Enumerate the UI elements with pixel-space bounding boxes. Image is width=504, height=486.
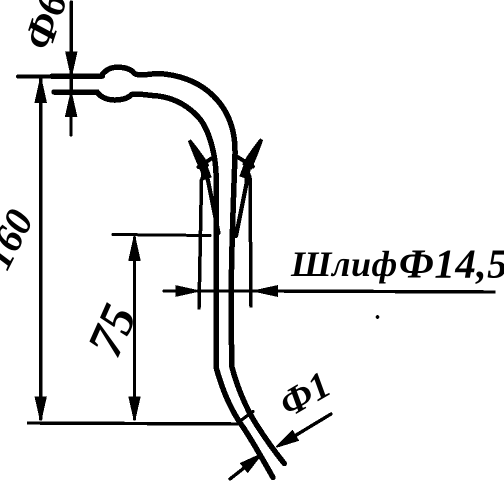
160 bottom arrowhead pointing down bbox=[35, 397, 46, 421]
stray ink dot bbox=[376, 315, 380, 319]
tube left wall vertical bbox=[214, 182, 220, 368]
joint right inner taper line bbox=[236, 174, 247, 236]
160 dimension line bbox=[39, 79, 42, 419]
75 extension line bbox=[113, 235, 210, 236]
joint left horn junction blob bbox=[201, 165, 212, 181]
tube bottom wall with bulb and inner bend curve bbox=[54, 92, 216, 182]
svg-text:Ф14,5: Ф14,5 bbox=[399, 241, 504, 287]
joint right horn junction blob bbox=[240, 164, 251, 179]
joint left outer line bbox=[199, 172, 205, 308]
phi1 leader upper segment bbox=[288, 414, 331, 440]
160 top arrowhead pointing up bbox=[35, 78, 46, 102]
shlif left arrowhead pointing right bbox=[176, 286, 199, 296]
tube left wall lower diagonal bbox=[216, 368, 273, 478]
phi6 dimension line bbox=[69, 2, 72, 135]
perpendicular tick at lower bend bbox=[240, 412, 254, 422]
75 top arrowhead pointing up bbox=[129, 236, 140, 260]
joint right horn spur bbox=[237, 157, 253, 167]
shlif right arrowhead pointing left bbox=[254, 286, 277, 296]
svg-text:Шлиф: Шлиф bbox=[290, 244, 398, 284]
phi6 upper arrowhead pointing down bbox=[66, 52, 77, 76]
phi6 lower arrowhead pointing up bbox=[66, 93, 77, 117]
bottom reference line bbox=[29, 423, 242, 424]
shlif leader line under label bbox=[272, 291, 494, 292]
top extension line bbox=[18, 74, 103, 78]
tube right wall lower diagonal bbox=[232, 367, 284, 464]
joint right flare horn wedge bbox=[245, 140, 262, 168]
shlif dimension line across joint bbox=[198, 289, 256, 292]
phi1 leader lower segment bbox=[230, 468, 244, 479]
phi1 upper arrowhead pointing down-left bbox=[277, 431, 299, 447]
joint left horn spur bbox=[199, 157, 214, 167]
joint left flare horn wedge bbox=[190, 141, 208, 169]
joint right outer line bbox=[247, 170, 251, 306]
tube right wall vertical bbox=[231, 158, 235, 367]
75 bottom arrowhead pointing down bbox=[129, 397, 140, 421]
tube top wall with bulb and outer bend curve bbox=[52, 67, 235, 158]
joint left inner taper line bbox=[207, 174, 219, 233]
75 dimension line bbox=[133, 238, 136, 419]
shlif dimension line left tail with arrow bbox=[164, 289, 180, 292]
phi1 lower arrowhead pointing up-right bbox=[241, 454, 262, 472]
